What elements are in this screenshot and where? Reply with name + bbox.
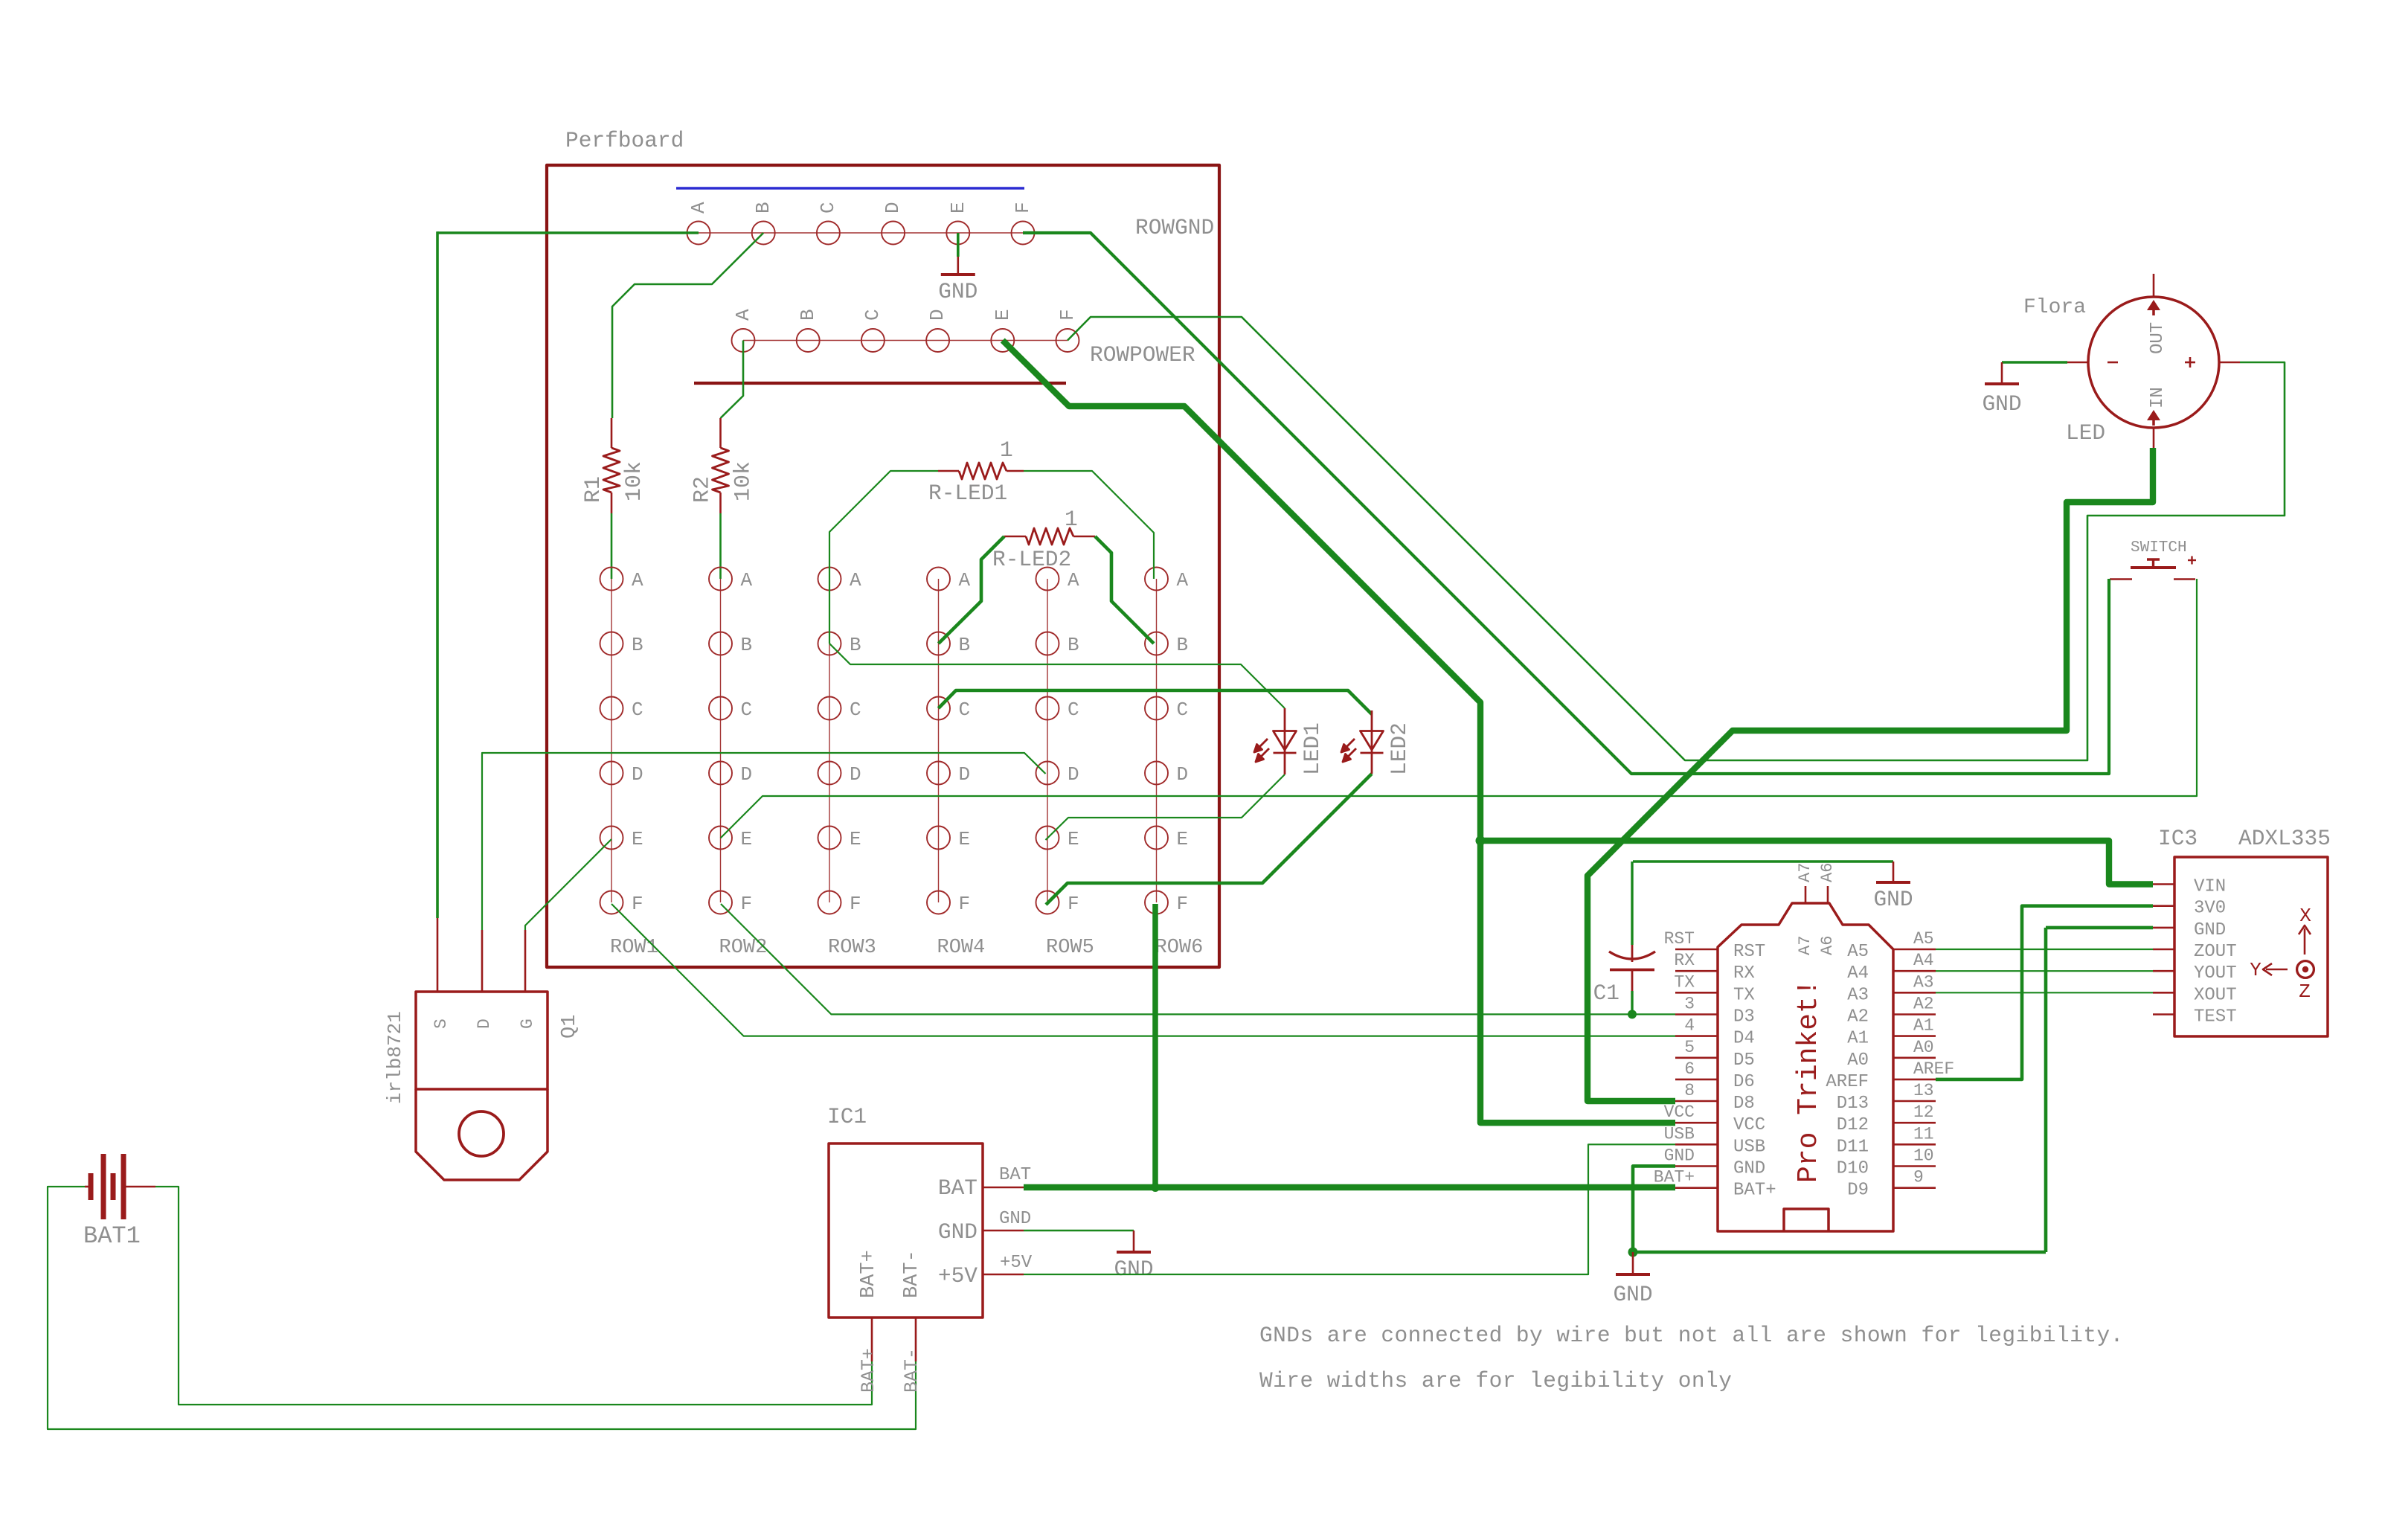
svg-text:D: D: [926, 309, 948, 321]
pin Flora minus: [2067, 362, 2088, 364]
pin IC1 GND: [983, 1230, 1024, 1232]
wire AREF to ADXL335 3V0: [1936, 906, 2153, 1079]
svg-text:A: A: [1177, 569, 1189, 591]
svg-text:B: B: [797, 309, 819, 321]
capacitor C1: [1631, 862, 1633, 945]
wire ROW1-F to Pro Trinket D4: [611, 904, 1675, 1036]
wire column ROW5: [1047, 579, 1048, 902]
svg-text:E: E: [850, 828, 861, 850]
svg-text:GNDs are connected by wire but: GNDs are connected by wire but not all a…: [1259, 1323, 2124, 1348]
pin switch right: [2174, 578, 2195, 580]
svg-text:C: C: [741, 699, 753, 721]
wire column ROW1: [611, 579, 612, 902]
pad ROWGND-E: [946, 222, 969, 245]
LED LED1: [1254, 708, 1297, 774]
pad ROW2-B: [709, 632, 732, 655]
svg-text:R-LED2: R-LED2: [992, 547, 1071, 572]
svg-text:GND: GND: [1982, 391, 2021, 417]
wire column ROW2: [720, 579, 722, 902]
svg-text:B: B: [752, 202, 774, 214]
svg-text:D: D: [475, 1018, 494, 1029]
svg-text:+5V: +5V: [1000, 1253, 1033, 1273]
svg-text:C: C: [861, 309, 884, 321]
pin XOUT: [2153, 992, 2174, 994]
wire column ROW3: [829, 579, 830, 902]
pin BAT+ (left 12): [1675, 1187, 1718, 1189]
svg-text:BAT+: BAT+: [1654, 1168, 1695, 1187]
svg-text:X: X: [2299, 905, 2311, 927]
svg-text:E: E: [992, 309, 1014, 321]
svg-text:ZOUT: ZOUT: [2194, 942, 2237, 962]
svg-text:C1: C1: [1593, 981, 1619, 1006]
blue wire: [676, 187, 1024, 190]
svg-text:IC3: IC3: [2158, 826, 2198, 851]
svg-text:A: A: [632, 569, 643, 591]
ground GND below Pro Trinket: [1632, 1252, 1634, 1274]
pad ROW3-E: [818, 827, 841, 850]
wire ROWGND-A to Q1 source: [437, 231, 699, 234]
pin IC1 BAT-: [915, 1318, 917, 1361]
pin TX (left 3): [1675, 992, 1718, 994]
svg-text:ROW6: ROW6: [1155, 937, 1204, 959]
wire LED1 cathode to ROW5-E: [1046, 774, 1285, 840]
ground GND above Pro Trinket: [1893, 862, 1895, 882]
pin 3V0: [2153, 905, 2174, 907]
svg-text:B: B: [850, 634, 861, 656]
pad ROW2-F: [709, 891, 732, 914]
svg-text:GND: GND: [1114, 1257, 1153, 1282]
accelerometer IC3 ADXL335: [2174, 857, 2328, 1036]
pad ROW2-E: [709, 827, 732, 850]
svg-text:Y: Y: [2250, 959, 2261, 981]
svg-text:GND: GND: [1733, 1159, 1765, 1179]
pad ROW3-A: [818, 568, 841, 591]
wire column ROW6: [1156, 579, 1158, 902]
svg-text:D10: D10: [1837, 1159, 1869, 1179]
svg-text:D: D: [959, 763, 971, 786]
pad ROW6-B: [1145, 632, 1168, 655]
svg-text:C: C: [1177, 699, 1189, 721]
pad ROW4-C: [927, 697, 950, 720]
wire Pro Trinket GND to ground: [1633, 1166, 1675, 1252]
ROWPOWER bus wire: [743, 340, 1068, 341]
svg-text:TEST: TEST: [2194, 1007, 2237, 1027]
pin 5 (left 6): [1675, 1057, 1718, 1059]
svg-text:E: E: [632, 828, 643, 850]
wire BAT1 minus to IC1 BAT-: [48, 1187, 916, 1429]
svg-text:BAT+: BAT+: [858, 1348, 879, 1393]
pin A3 (right 3): [1893, 992, 1936, 994]
pin Flora IN: [2153, 428, 2155, 448]
svg-text:RX: RX: [1733, 963, 1755, 984]
svg-text:GND: GND: [1664, 1146, 1695, 1166]
svg-text:A0: A0: [1847, 1050, 1869, 1071]
svg-text:A5: A5: [1847, 942, 1869, 962]
pin A6: [1827, 886, 1829, 903]
pad ROWPOWER-B: [797, 329, 820, 352]
pin 6 (left 7): [1675, 1079, 1718, 1081]
svg-text:RX: RX: [1674, 951, 1695, 970]
wire ADXL335 GND down: [2046, 926, 2153, 930]
svg-text:RST: RST: [1733, 942, 1765, 962]
svg-text:VCC: VCC: [1664, 1103, 1695, 1122]
wire ROWPOWER-E to VCC: [1003, 341, 1675, 1123]
pad ROWPOWER-A: [732, 329, 755, 352]
wire ROW3-B to LED1 anode: [829, 644, 1285, 708]
Pro Trinket usb tab: [1784, 1209, 1829, 1231]
svg-text:ROWGND: ROWGND: [1135, 215, 1214, 240]
pad ROW1-A: [600, 568, 623, 591]
svg-text:Z: Z: [2299, 981, 2311, 1003]
pin A5 (right 1): [1893, 949, 1936, 951]
svg-text:A: A: [732, 309, 754, 321]
junction C1-D3: [1628, 1010, 1637, 1018]
pad ROWPOWER-C: [861, 329, 885, 352]
svg-text:A0: A0: [1913, 1038, 1934, 1057]
pin 4 (left 5): [1675, 1035, 1718, 1037]
pin A0 (right 6): [1893, 1057, 1936, 1059]
wire A3 to XOUT: [1936, 992, 2153, 993]
svg-text:Flora: Flora: [2023, 296, 2086, 319]
pad ROW5-A: [1036, 568, 1059, 591]
pin GND: [2153, 927, 2174, 929]
pad ROWGND-A: [687, 222, 710, 245]
wire R-LED1 right to ROW6-A: [1024, 471, 1154, 579]
ROWGND bus wire: [699, 232, 1023, 234]
svg-text:F: F: [1012, 202, 1034, 214]
svg-text:BAT1: BAT1: [83, 1222, 141, 1250]
svg-text:A2: A2: [1913, 995, 1934, 1014]
svg-text:A1: A1: [1913, 1016, 1934, 1036]
svg-text:ROW4: ROW4: [937, 937, 986, 959]
pin 12 (right 9): [1893, 1122, 1936, 1124]
pin VCC (left 9): [1675, 1122, 1718, 1124]
svg-text:10k: 10k: [622, 461, 647, 501]
junction GND net: [1628, 1248, 1638, 1257]
svg-text:LED1: LED1: [1300, 722, 1325, 775]
svg-text:12: 12: [1913, 1103, 1934, 1122]
pad ROW4-A: [927, 568, 950, 591]
resistor R1: [611, 418, 613, 448]
pad ROW2-C: [709, 697, 732, 720]
pad ROW4-D: [927, 762, 950, 785]
pad ROW2-D: [709, 762, 732, 785]
svg-text:TX: TX: [1674, 972, 1695, 992]
svg-text:USB: USB: [1733, 1137, 1765, 1157]
pin A4 (right 2): [1893, 970, 1936, 972]
pad ROWGND-C: [817, 222, 840, 245]
svg-text:BAT+: BAT+: [858, 1250, 880, 1298]
pin 9 (right 12): [1893, 1187, 1936, 1189]
dark red power wire: [694, 382, 1066, 385]
svg-text:R-LED1: R-LED1: [928, 481, 1007, 506]
wire R-LED2 left to ROW4-B: [939, 536, 1005, 644]
svg-text:A7: A7: [1796, 863, 1814, 882]
pin ZOUT: [2153, 949, 2174, 951]
svg-text:A: A: [741, 569, 753, 591]
svg-text:A5: A5: [1913, 929, 1934, 949]
svg-text:GND: GND: [938, 1219, 977, 1245]
svg-text:1: 1: [1065, 507, 1078, 532]
wire IC1 GND to ground: [1024, 1230, 1134, 1232]
svg-text:D: D: [850, 763, 861, 786]
pin 11 (right 10): [1893, 1143, 1936, 1146]
svg-text:D: D: [632, 763, 643, 786]
wire R-LED1 left to ROW3-B: [829, 471, 938, 644]
svg-text:GND: GND: [1873, 887, 1913, 912]
pad ROW1-B: [600, 632, 623, 655]
junction BAT net: [1151, 1183, 1160, 1192]
pin 8 (left 8): [1675, 1100, 1718, 1103]
pin Flora plus: [2219, 362, 2240, 364]
wire R-LED2 right to ROW6-B: [1095, 536, 1154, 644]
svg-text:D6: D6: [1733, 1072, 1755, 1092]
resistor R-LED1: [938, 470, 959, 472]
svg-text:C: C: [632, 699, 643, 721]
svg-text:F: F: [1056, 309, 1079, 321]
svg-text:B: B: [632, 634, 643, 656]
svg-text:E: E: [1068, 828, 1079, 850]
svg-text:LED2: LED2: [1387, 722, 1412, 775]
svg-text:E: E: [959, 828, 971, 850]
svg-text:OUT: OUT: [2148, 322, 2168, 354]
svg-text:E: E: [1177, 828, 1189, 850]
pad ROW6-D: [1145, 762, 1168, 785]
svg-text:C: C: [850, 699, 861, 721]
svg-text:GND: GND: [938, 279, 977, 304]
pad ROW3-F: [818, 891, 841, 914]
pad ROWGND-B: [752, 222, 775, 245]
svg-text:1: 1: [1000, 437, 1013, 463]
pad ROW3-C: [818, 697, 841, 720]
svg-text:B: B: [959, 634, 971, 656]
svg-text:AREF: AREF: [1826, 1072, 1869, 1092]
pad ROWPOWER-F: [1056, 329, 1079, 352]
svg-text:TX: TX: [1733, 985, 1755, 1005]
pin 13 (right 8): [1893, 1100, 1936, 1103]
svg-text:B: B: [1177, 634, 1189, 656]
ground GND at IC1: [1133, 1231, 1135, 1252]
pad ROW3-B: [818, 632, 841, 655]
svg-text:A3: A3: [1847, 985, 1869, 1005]
wire IC1 +5V to Pro Trinket USB: [1024, 1144, 1675, 1274]
pin IC1 BAT: [983, 1187, 1024, 1189]
wire Flora minus to ground: [2002, 361, 2067, 364]
pin AREF (right 7): [1893, 1079, 1936, 1081]
svg-text:3V0: 3V0: [2194, 899, 2226, 919]
svg-text:A6: A6: [1818, 863, 1837, 882]
pin USB (left 10): [1675, 1143, 1718, 1146]
svg-text:A4: A4: [1913, 951, 1934, 970]
svg-text:F: F: [1068, 893, 1079, 915]
pad ROW6-F: [1145, 891, 1168, 914]
ground GND under ROWGND: [957, 257, 960, 275]
svg-text:D8: D8: [1733, 1094, 1755, 1114]
svg-text:BAT-: BAT-: [901, 1348, 922, 1393]
svg-text:C: C: [817, 202, 839, 214]
svg-text:GND: GND: [1613, 1282, 1652, 1307]
svg-text:BAT-: BAT-: [901, 1250, 923, 1298]
svg-text:D: D: [1068, 763, 1079, 786]
pad ROW1-D: [600, 762, 623, 785]
svg-text:11: 11: [1913, 1124, 1934, 1143]
pad ROW1-C: [600, 697, 623, 720]
pad ROWPOWER-E: [991, 329, 1014, 352]
wire VIN branch to ADXL335: [1480, 841, 2153, 885]
svg-text:S: S: [431, 1018, 451, 1029]
svg-text:AREF: AREF: [1913, 1059, 1954, 1079]
pin IC1 +5V: [983, 1274, 1024, 1276]
svg-text:R1: R1: [581, 476, 606, 503]
pad ROW6-E: [1145, 827, 1168, 850]
svg-text:B: B: [1068, 634, 1079, 656]
pad ROW4-B: [927, 632, 950, 655]
svg-text:+5V: +5V: [938, 1263, 977, 1289]
pin RX (left 2): [1675, 970, 1718, 972]
svg-text:BAT+: BAT+: [1733, 1181, 1776, 1201]
pin 3 (left 4): [1675, 1013, 1718, 1016]
pin Flora OUT: [2153, 274, 2155, 297]
svg-text:10: 10: [1913, 1146, 1934, 1166]
wire ROWGND-E to ground: [957, 233, 960, 257]
pad ROW1-E: [600, 827, 623, 850]
pad ROW5-B: [1036, 632, 1059, 655]
wire column ROW4: [938, 579, 940, 902]
pad ROW6-A: [1145, 568, 1168, 591]
LED LED2: [1341, 710, 1384, 774]
svg-text:D: D: [1177, 763, 1189, 786]
svg-text:BAT: BAT: [938, 1175, 977, 1201]
pad ROW5-D: [1036, 762, 1059, 785]
pin A1 (right 5): [1893, 1035, 1936, 1037]
svg-text:D4: D4: [1733, 1029, 1755, 1049]
resistor R2: [719, 418, 722, 448]
wire A5 to ZOUT: [1936, 949, 2153, 950]
transistor Q1: [437, 918, 525, 992]
svg-text:9: 9: [1913, 1168, 1924, 1187]
pin switch left: [2110, 578, 2132, 580]
battery BAT1: [85, 1154, 155, 1219]
svg-text:F: F: [632, 893, 643, 915]
pad ROWGND-F: [1012, 222, 1035, 245]
pin GND (left 11): [1675, 1165, 1718, 1167]
svg-text:ROW2: ROW2: [719, 937, 768, 959]
svg-text:Pro Trinket!: Pro Trinket!: [1793, 979, 1825, 1183]
svg-text:C: C: [1068, 699, 1079, 721]
junction VCC-VIN: [1476, 836, 1486, 846]
svg-text:GND: GND: [999, 1209, 1031, 1229]
svg-text:ROWPOWER: ROWPOWER: [1090, 342, 1195, 368]
svg-text:YOUT: YOUT: [2194, 963, 2237, 984]
resistor R-LED2: [1004, 536, 1026, 538]
svg-text:Perfboard: Perfboard: [565, 128, 684, 153]
svg-text:ROW5: ROW5: [1046, 937, 1094, 959]
svg-text:B: B: [741, 634, 753, 656]
svg-text:D: D: [741, 763, 753, 786]
svg-text:D: D: [882, 202, 904, 214]
svg-text:A1: A1: [1847, 1029, 1869, 1049]
svg-text:10k: 10k: [731, 461, 757, 501]
wire ROWGND-B to R1: [612, 233, 763, 418]
svg-text:A4: A4: [1847, 963, 1869, 984]
svg-text:Wire widths are for legibility: Wire widths are for legibility only: [1259, 1368, 1732, 1393]
pin VIN: [2153, 883, 2174, 885]
svg-text:IC1: IC1: [827, 1104, 867, 1129]
svg-text:F: F: [959, 893, 971, 915]
pad ROWGND-D: [882, 222, 905, 245]
svg-text:F: F: [850, 893, 861, 915]
wire switch left to ROWGND-F: [1023, 233, 2109, 774]
svg-text:A: A: [850, 569, 861, 591]
svg-text:D12: D12: [1837, 1115, 1869, 1135]
svg-text:VCC: VCC: [1733, 1115, 1765, 1135]
pad ROW1-F: [600, 891, 623, 914]
svg-text:D13: D13: [1837, 1094, 1869, 1114]
wire BAT net IC1 to Pro Trinket BAT+: [1024, 1184, 1675, 1190]
svg-text:ADXL335: ADXL335: [2238, 826, 2331, 851]
svg-text:13: 13: [1913, 1081, 1934, 1100]
svg-text:6: 6: [1684, 1059, 1695, 1079]
pad ROW5-E: [1036, 827, 1059, 850]
Perfboard outline box: [547, 165, 1219, 967]
svg-text:E: E: [741, 828, 753, 850]
svg-text:F: F: [741, 893, 753, 915]
svg-text:G: G: [518, 1018, 537, 1029]
svg-text:IN: IN: [2148, 387, 2168, 408]
wire Q1 drain to ROW5-D: [482, 753, 1046, 930]
wire R1 to ROW1-A: [611, 513, 613, 579]
pin A2 (right 4): [1893, 1013, 1936, 1016]
svg-text:RST: RST: [1664, 929, 1695, 949]
svg-text:irlb8721: irlb8721: [384, 1011, 406, 1104]
svg-text:SWITCH: SWITCH: [2131, 539, 2187, 556]
pad ROW5-C: [1036, 697, 1059, 720]
svg-text:A7: A7: [1796, 936, 1814, 955]
svg-text:VIN: VIN: [2194, 877, 2226, 897]
svg-text:A: A: [687, 202, 710, 214]
axis icon Z circle: [2297, 961, 2314, 978]
wire R2 to ROW2-A: [719, 513, 722, 579]
wire Q1 gate to ROW1-E: [525, 839, 611, 930]
pad ROW6-C: [1145, 697, 1168, 720]
wire Pro Trinket D8 to Flora IN: [1588, 448, 2153, 1101]
MCU Pro Trinket U1: [1718, 903, 1893, 1231]
wire LED2 cathode to ROW5-F: [1046, 774, 1372, 905]
pad ROWPOWER-D: [926, 329, 949, 352]
svg-text:4: 4: [1684, 1016, 1695, 1036]
wire ROW2-F to Pro Trinket D3: [721, 904, 1675, 1014]
svg-text:E: E: [947, 202, 969, 214]
wire ROW4-C to LED2 anode: [939, 690, 1373, 714]
wire A4 to YOUT: [1936, 970, 2153, 972]
wire C1 top to ground: [1633, 860, 1893, 862]
pad ROW3-D: [818, 762, 841, 785]
svg-text:USB: USB: [1664, 1124, 1695, 1143]
pin IC1 BAT+: [871, 1318, 873, 1361]
ground GND at Flora: [2001, 362, 2003, 384]
pin RST (left 1): [1675, 949, 1718, 951]
svg-text:R2: R2: [690, 476, 716, 503]
wire ROWPOWER-A to R2: [721, 341, 744, 419]
pad ROW4-E: [927, 827, 950, 850]
svg-text:A2: A2: [1847, 1007, 1869, 1027]
svg-text:F: F: [1177, 893, 1189, 915]
wire ROW6-F to BAT net: [1152, 904, 1158, 1187]
wire Flora plus to ROWPOWER-F: [1068, 317, 2285, 760]
pad ROW4-F: [927, 891, 950, 914]
pin 10 (right 11): [1893, 1165, 1936, 1167]
svg-text:ROW1: ROW1: [610, 937, 658, 959]
